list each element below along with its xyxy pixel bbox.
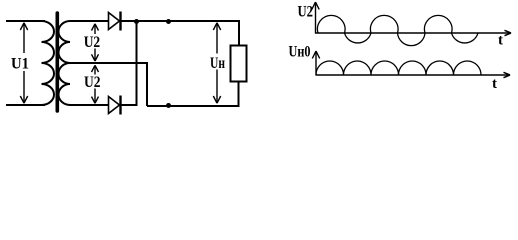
wire: bottom return rail to load xyxy=(147,81,239,106)
junction dot B (top rail) xyxy=(166,19,171,24)
svg-text:U1: U1 xyxy=(11,56,29,73)
wire: secondary top to diode VD1 xyxy=(70,20,109,22)
svg-text:U2: U2 xyxy=(84,34,101,51)
Uн measurement arrow xyxy=(213,23,220,103)
transformer core xyxy=(55,13,59,111)
svg-text:Uн0: Uн0 xyxy=(289,44,311,61)
diode VD2 (bottom) xyxy=(109,96,121,115)
junction dot A (riser to top rail) xyxy=(134,19,139,24)
svg-text:Uн: Uн xyxy=(210,55,225,72)
wire: primary top stub xyxy=(6,20,45,22)
transformer T1 secondary winding (center-tapped) xyxy=(59,21,71,105)
svg-text:U2: U2 xyxy=(298,4,314,21)
wire: secondary bottom to diode VD2 xyxy=(70,104,109,106)
svg-text:U2: U2 xyxy=(84,74,101,91)
diode VD1 (top) xyxy=(109,12,121,31)
wire: center tap to corner, down to bottom return xyxy=(70,63,147,106)
Uн0 graph: vertical axis xyxy=(312,51,319,76)
load resistor Rн xyxy=(231,46,247,82)
U2 waveform: time axis xyxy=(315,30,511,35)
Uн0 graph: time axis xyxy=(316,72,510,77)
wire: primary bottom stub xyxy=(6,104,45,106)
U2 sine waveform xyxy=(317,15,478,45)
U2 lower measurement arrow xyxy=(92,65,99,103)
U2 waveform: vertical axis xyxy=(312,2,319,34)
transformer T1 primary winding xyxy=(42,21,54,105)
junction dot C (bottom return rail) xyxy=(166,103,171,108)
U1 measurement arrow (double-headed) xyxy=(20,23,27,103)
wire: VD2 cathode to riser xyxy=(122,104,138,106)
U2 upper measurement arrow xyxy=(92,24,99,61)
wire: top rail from VD1 to load with corner down xyxy=(122,21,240,45)
Uн0 rectified waveform xyxy=(316,61,481,75)
svg-text:t: t xyxy=(492,76,497,92)
svg-text:t: t xyxy=(498,33,503,49)
wire: riser from bottom diode output up to top rail xyxy=(136,22,138,106)
